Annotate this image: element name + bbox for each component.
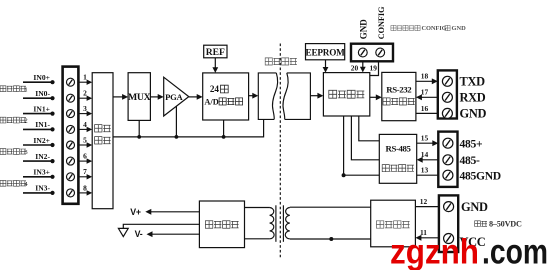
wire input stub IN3+ xyxy=(23,175,55,179)
label input channel 1 (CJK) xyxy=(0,86,28,94)
block EEPROM U5 xyxy=(306,44,346,60)
wire pin 15 485+ xyxy=(417,140,439,146)
wire pin 16 GND xyxy=(416,112,438,114)
block RS-232 interface circuit xyxy=(382,72,416,120)
svg-text:zgznh: zgznh xyxy=(390,233,479,270)
svg-text:15: 15 xyxy=(421,134,429,143)
svg-text:IN1-: IN1- xyxy=(35,120,50,129)
wire input stub IN0- xyxy=(23,96,55,100)
block input circuit (shuru dianlu) xyxy=(92,73,113,209)
svg-text:REF: REF xyxy=(206,47,225,58)
svg-text:1: 1 xyxy=(83,73,87,82)
svg-text:GND: GND xyxy=(461,200,488,214)
op-amp PGA U3 xyxy=(164,77,189,116)
terminal block J3 (TXD RXD GND pins 18-16) xyxy=(438,70,457,118)
wire ADC to bus xyxy=(222,120,226,139)
block REF voltage reference xyxy=(204,45,227,58)
svg-text:18: 18 xyxy=(421,72,429,81)
svg-text:V+: V+ xyxy=(130,207,141,217)
svg-text:IN2-: IN2- xyxy=(35,152,50,161)
svg-text:1: 1 xyxy=(24,86,27,93)
svg-text:CONFIG: CONFIG xyxy=(422,25,447,32)
label input channel 4 (CJK) xyxy=(0,180,28,188)
block MUX U2 xyxy=(128,73,151,121)
wire to ground xyxy=(123,224,199,228)
wire ADC to isolation coupler xyxy=(249,93,259,99)
block microprocessor U6 (CJK) xyxy=(323,73,369,116)
wire filter to transformer bottom xyxy=(245,238,270,240)
svg-text:7: 7 xyxy=(83,167,87,176)
wire terminal pin 8 to input circuit xyxy=(79,190,93,195)
svg-text:12: 12 xyxy=(420,197,428,206)
isolation barrier dashed line xyxy=(279,44,281,259)
svg-text:20: 20 xyxy=(351,63,359,72)
svg-text:RS-485: RS-485 xyxy=(386,144,412,154)
wire input circuit to MUX xyxy=(113,94,128,100)
wire terminal pin 2 to input circuit xyxy=(79,96,93,101)
svg-text:8–50VDC: 8–50VDC xyxy=(489,220,522,229)
block ADC 24bit A/D converter U4 xyxy=(203,73,249,120)
svg-text:RXD: RXD xyxy=(460,91,486,105)
ground symbol xyxy=(118,228,128,236)
wire pin 18 TXD xyxy=(416,78,438,84)
wire EEPROM to microprocessor xyxy=(323,60,329,73)
wire V- output xyxy=(147,231,200,237)
svg-text:14: 14 xyxy=(421,150,429,159)
wire pin 11 VCC xyxy=(415,235,439,241)
svg-text:8: 8 xyxy=(83,183,87,192)
svg-text:13: 13 xyxy=(421,166,429,175)
transformer T1 core xyxy=(276,205,284,242)
wire microprocessor to RS-232 xyxy=(370,94,382,100)
wire terminal pin 5 to input circuit xyxy=(79,142,93,147)
svg-text:GND: GND xyxy=(358,19,368,40)
svg-text:IN3-: IN3- xyxy=(35,184,50,193)
transformer T1 secondary winding xyxy=(285,208,290,239)
svg-text:4: 4 xyxy=(83,120,87,129)
svg-text:485+: 485+ xyxy=(460,138,483,151)
wire MUX to bus xyxy=(137,120,141,138)
wire input stub IN3- xyxy=(23,191,55,195)
block power circuit (dianyuan dianlu CJK) xyxy=(371,200,416,247)
wire pin 12 GND xyxy=(415,206,439,208)
svg-text:19: 19 xyxy=(370,63,378,72)
svg-text:RS-232: RS-232 xyxy=(386,85,412,95)
svg-text:IN2+: IN2+ xyxy=(33,136,50,145)
svg-text:IN1+: IN1+ xyxy=(33,104,50,113)
wire terminal pin 6 to input circuit xyxy=(79,158,93,163)
wire microprocessor to RS-485 b xyxy=(351,116,379,160)
transformer T1 primary winding xyxy=(270,208,275,239)
svg-text:TXD: TXD xyxy=(460,75,486,89)
svg-text:IN3+: IN3+ xyxy=(33,168,50,177)
wire input stub IN1+ xyxy=(23,112,55,116)
svg-text:485-: 485- xyxy=(460,154,480,167)
wire microprocessor to RS-485 c with junction xyxy=(342,116,380,177)
wire pin 19 CONFIG to microprocessor xyxy=(370,61,379,75)
svg-text:17: 17 xyxy=(421,88,429,97)
svg-text:IN0+: IN0+ xyxy=(33,73,50,82)
wire REF to ADC xyxy=(212,58,218,73)
wire input stub IN0+ xyxy=(23,80,55,84)
wire pin 14 485- xyxy=(417,157,439,163)
wire bus to isolation coupler xyxy=(263,119,265,137)
wire MUX to PGA xyxy=(150,94,163,100)
wire input stub IN1- xyxy=(23,127,55,131)
wire terminal pin 3 to input circuit xyxy=(79,111,93,116)
svg-text:3: 3 xyxy=(83,104,87,113)
svg-text:CONFIG: CONFIG xyxy=(377,6,386,39)
svg-text:V-: V- xyxy=(135,229,143,239)
isolation coupler (rectangle with wavy break) xyxy=(258,73,310,120)
wire microprocessor to RS-485 a xyxy=(359,116,380,141)
wire input stub IN2+ xyxy=(23,143,55,147)
wire PGA to ADC xyxy=(189,94,203,100)
wire analog common bus xyxy=(113,136,264,138)
wire terminal pin 1 to input circuit xyxy=(79,80,93,85)
terminal block J2 (GND / CONFIG pins 20,19) xyxy=(351,44,393,62)
watermark zgznh.com xyxy=(390,233,548,270)
wire pin 13 485GND xyxy=(417,174,439,176)
note: short CONFIG to GND when configuring (CJK+latin) xyxy=(391,25,466,32)
wire V+ output xyxy=(145,209,199,215)
wire terminal pin 7 to input circuit xyxy=(79,174,93,179)
svg-text:485GND: 485GND xyxy=(460,170,501,183)
terminal block J1 (screw terminals 1-8) xyxy=(63,67,79,204)
wire input stub IN2- xyxy=(23,159,55,163)
svg-text:A/D: A/D xyxy=(204,97,218,106)
svg-text:EEPROM: EEPROM xyxy=(306,47,346,57)
svg-text:6: 6 xyxy=(83,152,87,161)
wire isolation coupler to microprocessor xyxy=(310,93,323,99)
svg-text:.com: .com xyxy=(482,233,548,270)
svg-text:IN0-: IN0- xyxy=(35,89,50,98)
svg-text:MUX: MUX xyxy=(128,92,151,103)
wire pin 17 RXD xyxy=(416,94,438,100)
label input channel 2 (CJK) xyxy=(0,117,28,125)
svg-text:16: 16 xyxy=(421,104,429,113)
svg-text:PGA: PGA xyxy=(165,92,183,102)
wire transformer to power circuit bottom with junction xyxy=(290,237,371,241)
wire PGA to bus xyxy=(175,107,179,139)
svg-text:5: 5 xyxy=(83,135,87,144)
wire pin 20 to microprocessor xyxy=(360,61,366,72)
terminal block J4 (485+ 485- 485GND pins 15-13) xyxy=(438,132,457,187)
block RS-485 interface circuit xyxy=(379,134,416,183)
svg-text:GND: GND xyxy=(452,25,467,32)
terminal block J5 (power GND VCC pins 12,11) xyxy=(439,195,458,252)
label isolation circuit (geli dianlu CJK) xyxy=(265,58,297,65)
svg-text:24: 24 xyxy=(210,84,220,94)
label power supply 8-50VDC (CJK+latin) xyxy=(475,220,522,229)
block filter circuit (lvbo dianlu CJK) xyxy=(199,201,244,248)
svg-text:2: 2 xyxy=(24,118,27,125)
svg-text:GND: GND xyxy=(460,107,487,121)
wire transformer to power circuit top xyxy=(290,206,371,208)
label input channel 3 (CJK) xyxy=(0,149,28,157)
wire filter to transformer top xyxy=(245,207,270,209)
svg-text:2: 2 xyxy=(83,89,87,98)
wire terminal pin 4 to input circuit xyxy=(79,127,93,132)
